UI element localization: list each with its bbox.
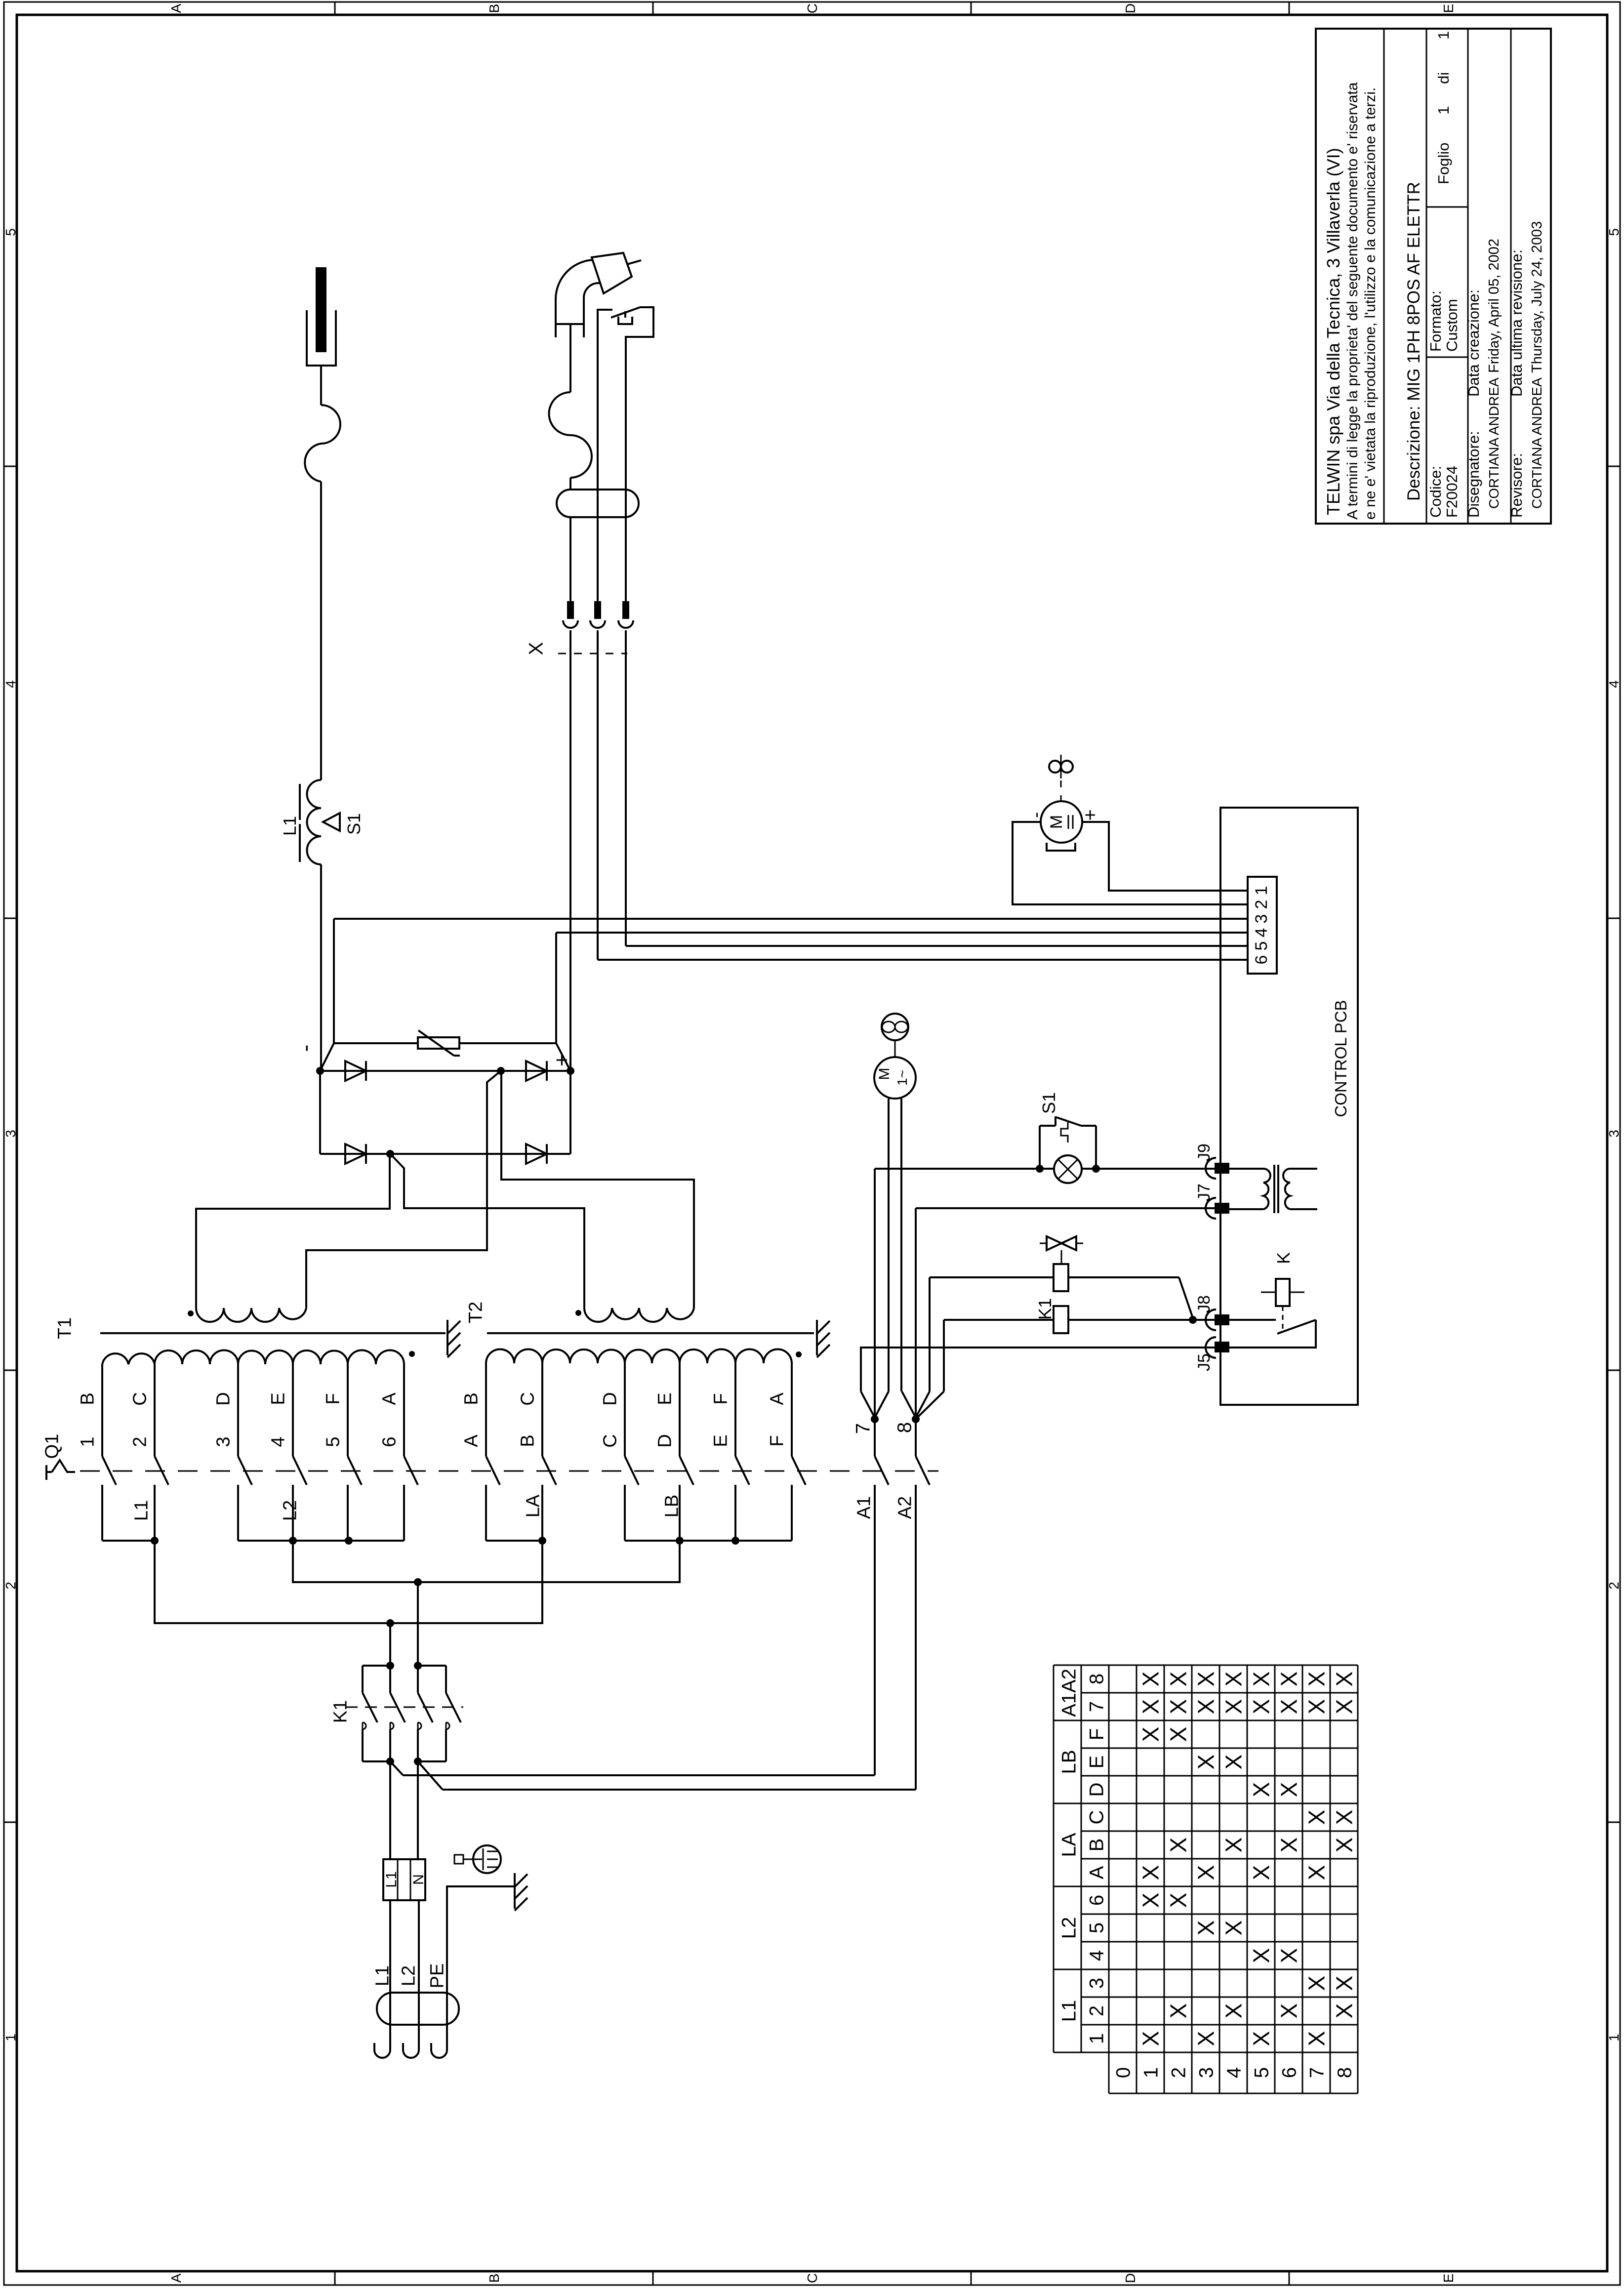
label plus output <box>550 1054 574 1066</box>
label J7 <box>1195 1184 1214 1201</box>
title text descrizione <box>1404 182 1423 501</box>
Q1 contact 7 upper <box>874 1419 876 1456</box>
svg-text:K: K <box>1273 1252 1294 1264</box>
border zone tick left <box>4 1822 17 1823</box>
wire torch lead 2 above pins <box>597 375 599 601</box>
svg-text:N: N <box>410 1874 427 1885</box>
wire bridge right side <box>569 1071 571 1154</box>
title text disegnatore label <box>1465 431 1482 518</box>
pcb transformer primary <box>1263 1169 1270 1209</box>
label tap B <box>78 1392 98 1405</box>
wire motor plus <box>1082 822 1248 891</box>
connector J8 <box>1206 1309 1229 1330</box>
Q1 contact 1 lower <box>101 1485 103 1541</box>
relay K coil lead left <box>1261 1292 1276 1293</box>
wire valve left <box>930 1276 1054 1278</box>
svg-text:X: X <box>1276 2003 1302 2019</box>
svg-text:A1A2: A1A2 <box>1058 1669 1080 1717</box>
contactor K1 bottom bar left <box>363 1760 390 1762</box>
node lamp left <box>1036 1165 1044 1173</box>
connector strip CN1 <box>1248 877 1277 974</box>
Q1 contact T2-C blade <box>625 1456 639 1485</box>
node K1 top right <box>414 1662 422 1670</box>
label contact 5 <box>323 1436 344 1447</box>
svg-text:2: 2 <box>1086 2005 1107 2016</box>
ferrite sleeve torch <box>557 490 639 517</box>
node T2 secondary polarity <box>575 1310 581 1316</box>
svg-text:C: C <box>130 1392 151 1405</box>
label plus motor <box>1079 809 1101 820</box>
title text foglio n2 <box>1435 31 1452 40</box>
border zone tick left <box>4 1370 17 1371</box>
svg-text:T2: T2 <box>466 1302 487 1323</box>
svg-text:3: 3 <box>213 1436 234 1447</box>
svg-text:X: X <box>1276 1699 1302 1715</box>
label CONTROL PCB <box>1332 1000 1350 1117</box>
node K1 bottom left <box>386 1757 394 1765</box>
label LB bus <box>662 1495 683 1517</box>
connector CN1 pin 5 label <box>1252 941 1271 951</box>
svg-text:4: 4 <box>268 1436 289 1447</box>
svg-text:X: X <box>1138 1727 1164 1742</box>
wire funnel8 a <box>902 1391 915 1416</box>
title block frame <box>1316 29 1551 524</box>
wire K1 to A1 <box>390 1761 875 1775</box>
node bus L1 <box>151 1537 159 1545</box>
zone label D top <box>1123 3 1138 13</box>
wire bridge bottom rail <box>320 1153 570 1155</box>
svg-text:X: X <box>1166 1727 1191 1742</box>
svg-text:8: 8 <box>893 1422 915 1433</box>
label contact 3 <box>213 1436 234 1447</box>
wire PE <box>447 1886 515 2050</box>
wire pcb secondary bottom <box>1290 1208 1317 1210</box>
wire L1 choke to minus node <box>320 864 322 1071</box>
label S1 thermostat <box>344 813 364 835</box>
wire torch lead 3 above pins <box>625 375 627 601</box>
svg-text:X: X <box>1332 1838 1357 1853</box>
svg-text:LB: LB <box>1058 1750 1080 1774</box>
node plus <box>567 1067 574 1075</box>
terminal block L1 N <box>383 1859 425 1900</box>
Q1 contact 1 upper <box>101 1364 103 1456</box>
torch trigger slant <box>611 307 640 318</box>
zone label 1 right <box>1606 2034 1622 2042</box>
zone label C top <box>805 3 820 13</box>
svg-text:X: X <box>1166 1893 1191 1908</box>
label tap T2 B <box>461 1392 482 1405</box>
contactor K1 bottom bar right <box>418 1760 446 1762</box>
wire electrode to flex <box>320 366 322 405</box>
contactor K1 contact blade <box>390 1693 405 1722</box>
wire pcb secondary top <box>1290 1168 1317 1170</box>
svg-text:Friday, April 05, 2002: Friday, April 05, 2002 <box>1486 239 1502 373</box>
wire torch pin5 horizontal <box>626 945 1248 947</box>
Q1 contact 4 blade <box>293 1456 307 1485</box>
wire K contact to J5 <box>1229 1320 1316 1348</box>
zone label 4 left <box>3 680 18 688</box>
svg-text:2: 2 <box>1606 1582 1622 1590</box>
svg-text:3: 3 <box>1606 1130 1622 1138</box>
svg-text:X: X <box>1138 1672 1164 1687</box>
zone label 1 left <box>3 2034 18 2042</box>
svg-text:D: D <box>1123 2273 1138 2283</box>
label Q1 <box>42 1434 63 1459</box>
wire L1 to LA tie <box>155 1541 542 1623</box>
Q1 contact 4 upper <box>292 1364 294 1456</box>
svg-text:8: 8 <box>1086 1674 1107 1684</box>
label L1 bus <box>131 1500 152 1521</box>
gas valve stem <box>1061 1250 1062 1264</box>
wire K1 out left <box>389 1761 391 1859</box>
wire X dashed line <box>558 653 627 654</box>
zone label E top <box>1441 4 1456 13</box>
svg-text:1: 1 <box>1435 106 1452 115</box>
wire bus L2 <box>238 1540 404 1542</box>
Q1 contact T2-C lower <box>624 1485 626 1541</box>
svg-text:X: X <box>525 642 547 655</box>
svg-text:X: X <box>1304 1976 1330 1991</box>
label J8 <box>1195 1295 1214 1313</box>
contactor K1 contact stub lower <box>389 1729 391 1761</box>
title text formato label <box>1427 290 1444 352</box>
wire K1 right drop <box>417 1582 419 1665</box>
svg-text:K1: K1 <box>1035 1298 1055 1320</box>
node K1 top left <box>386 1662 394 1670</box>
contactor K1 contact hook <box>418 1722 421 1729</box>
svg-text:F: F <box>1086 1728 1107 1740</box>
torch handle left <box>598 310 612 375</box>
node bus LB a <box>676 1537 684 1545</box>
Q1 contact 6 upper <box>403 1364 405 1456</box>
svg-text:B: B <box>461 1392 482 1405</box>
svg-text:F: F <box>711 1393 731 1404</box>
svg-text:-: - <box>1025 812 1046 818</box>
svg-text:X: X <box>1221 1920 1247 1936</box>
relay K contact blade <box>1277 1320 1316 1334</box>
fan link <box>894 1040 896 1057</box>
title text revisione value <box>1529 221 1545 373</box>
svg-text:D: D <box>655 1434 676 1447</box>
thermostat S1 triangle <box>323 813 340 831</box>
svg-text:di: di <box>1435 72 1452 84</box>
title text data creazione label <box>1465 289 1482 397</box>
wire bridge left side <box>319 1071 321 1154</box>
title text formato value <box>1443 299 1461 352</box>
svg-text:1: 1 <box>1435 31 1452 40</box>
contactor K1 contact hook <box>363 1722 366 1729</box>
wire K1 left drop <box>389 1623 391 1665</box>
border zone tick top <box>334 2 336 15</box>
motor M dc bars <box>1068 815 1073 829</box>
Q1 contact T2-A lower <box>485 1485 487 1541</box>
zone label 5 right <box>1606 228 1622 236</box>
label tap C <box>130 1392 151 1405</box>
torch neck dash <box>599 260 620 265</box>
svg-text:X: X <box>1276 1948 1302 1963</box>
svg-text:B: B <box>487 4 502 13</box>
title text codice label <box>1427 466 1444 518</box>
label tap E <box>268 1392 289 1405</box>
label contact 6 <box>379 1436 400 1447</box>
svg-text:Disegnatore:: Disegnatore: <box>1465 431 1482 518</box>
svg-text:E: E <box>268 1392 289 1405</box>
Q1 contact 3 lower <box>237 1485 239 1541</box>
svg-text:4: 4 <box>1252 928 1271 938</box>
svg-text:CORTIANA ANDREA: CORTIANA ANDREA <box>1486 377 1502 509</box>
label L1 choke <box>280 816 300 836</box>
inductor L1 choke <box>307 780 322 864</box>
Q1 contact 1 blade <box>102 1456 116 1485</box>
electrode bar <box>316 267 326 352</box>
svg-text:E: E <box>1086 1756 1107 1769</box>
svg-text:+: + <box>1079 809 1101 820</box>
svg-text:X: X <box>1193 1920 1219 1936</box>
svg-text:X: X <box>1332 1976 1357 1991</box>
connector J5 <box>1206 1337 1229 1358</box>
Q1 actuator zigzag <box>52 1460 75 1472</box>
wire J9 to pcb transformer <box>1229 1168 1263 1170</box>
connector CN1 pin 4 label <box>1252 928 1271 938</box>
svg-text:X: X <box>1166 1838 1191 1853</box>
zone label 2 right <box>1606 1582 1622 1590</box>
label contact T2 E <box>711 1434 731 1447</box>
contactor K1 contact stub upper <box>445 1666 447 1693</box>
border zone tick top <box>652 2 654 15</box>
label node 8 <box>893 1422 915 1433</box>
svg-text:X: X <box>1138 1699 1164 1715</box>
svg-text:S1: S1 <box>1039 1092 1059 1114</box>
Q1 contact 5 lower <box>347 1485 349 1541</box>
label A2 <box>895 1496 916 1519</box>
svg-text:LA: LA <box>1058 1833 1080 1857</box>
svg-text:X: X <box>1221 1755 1247 1770</box>
border zone tick bottom <box>334 2271 336 2285</box>
label M fan <box>876 1068 910 1086</box>
svg-text:J8: J8 <box>1195 1295 1214 1313</box>
torch connector pin 2 <box>590 601 605 628</box>
title block divider <box>1510 29 1512 524</box>
torch wire stub <box>627 260 641 264</box>
chassis ground PE <box>515 1873 528 1911</box>
title text revisore value <box>1529 377 1544 509</box>
wire plus sense to pin4 <box>556 932 1248 934</box>
node K1 bottom right <box>414 1757 422 1765</box>
Q1 contact 4 lower <box>292 1485 294 1541</box>
torch neck outer <box>556 260 595 337</box>
svg-text:X: X <box>1193 1699 1219 1715</box>
label tap F <box>323 1393 344 1404</box>
wire L2 to LB tie <box>293 1541 680 1582</box>
svg-text:X: X <box>1304 1672 1330 1687</box>
svg-text:X: X <box>1276 1838 1302 1853</box>
table row labels <box>1112 2067 1355 2078</box>
svg-text:C: C <box>1086 1810 1107 1825</box>
Q1 contact T2-F lower <box>791 1485 793 1541</box>
label J5 <box>1195 1353 1214 1371</box>
svg-text:B: B <box>1086 1839 1107 1852</box>
label LA bus <box>523 1494 544 1517</box>
contactor K1 contact blade <box>446 1693 461 1722</box>
node bridge bottom center <box>386 1150 394 1158</box>
wire torch lead 1 ferrite to flex <box>569 478 571 490</box>
label cable PE <box>427 1963 448 1989</box>
wire K1 out right <box>417 1761 419 1859</box>
svg-text:M: M <box>876 1068 893 1080</box>
electrode clamp <box>307 310 336 366</box>
node J8 junction <box>1189 1316 1197 1324</box>
wire bus LA <box>486 1540 542 1542</box>
svg-text:4: 4 <box>3 680 18 688</box>
title text disegnatore value <box>1486 377 1502 509</box>
wire valve drop <box>929 1277 931 1391</box>
Q1 contact T2-D blade <box>680 1456 693 1485</box>
svg-text:X: X <box>1249 1672 1274 1687</box>
svg-text:X: X <box>1221 2003 1247 2019</box>
label terminal L1 <box>383 1871 400 1887</box>
title block divider <box>1426 29 1427 524</box>
diode D2 <box>526 1061 547 1081</box>
title text codice value <box>1443 466 1461 518</box>
wire node8 vertical <box>915 1208 917 1419</box>
label K1 <box>330 1700 351 1723</box>
Q1 contact T2-B blade <box>542 1456 556 1485</box>
border zone tick right <box>1607 466 1620 467</box>
label tap T2 E <box>655 1392 676 1405</box>
svg-text:C: C <box>518 1392 538 1405</box>
svg-text:CORTIANA ANDREA: CORTIANA ANDREA <box>1529 377 1544 509</box>
svg-text:X: X <box>1249 1699 1274 1715</box>
node T2 primary polarity <box>796 1351 802 1357</box>
node T1 primary polarity <box>409 1351 415 1357</box>
connector CN1 pin 3 label <box>1252 914 1271 924</box>
svg-text:L1: L1 <box>372 1965 393 1986</box>
Q1 contact 5 blade <box>348 1456 362 1485</box>
torch handle right <box>626 307 653 375</box>
svg-text:0: 0 <box>1112 2067 1134 2078</box>
torch connector pin 1 <box>563 601 578 628</box>
svg-text:3: 3 <box>3 1130 18 1138</box>
svg-text:1: 1 <box>1606 2034 1622 2042</box>
Q1 contact 2 lower <box>154 1485 156 1541</box>
Q1 contact T2-E lower <box>734 1485 736 1541</box>
border zone tick bottom <box>1289 2271 1290 2285</box>
fan blades symbol <box>882 1014 908 1040</box>
svg-text:X: X <box>1138 2031 1164 2046</box>
pcb transformer core <box>1274 1165 1278 1213</box>
diode D4 <box>526 1144 547 1164</box>
svg-text:X: X <box>1332 1672 1357 1687</box>
zone label C bottom <box>805 2273 820 2283</box>
svg-text:E: E <box>1441 4 1456 13</box>
svg-text:X: X <box>1138 1893 1164 1908</box>
svg-text:5: 5 <box>1252 941 1271 951</box>
svg-text:M: M <box>1047 815 1066 829</box>
wire minus sense up <box>333 919 335 1043</box>
svg-text:2: 2 <box>3 1582 18 1590</box>
label terminal N <box>410 1874 427 1885</box>
svg-text:3: 3 <box>1195 2067 1217 2078</box>
svg-text:2: 2 <box>1252 900 1271 909</box>
connector CN1 pin 6 label <box>1252 955 1271 965</box>
transformer T1 primary <box>102 1350 404 1365</box>
label tap T2 C <box>518 1392 538 1405</box>
wire torch pin6 vertical <box>597 630 599 960</box>
title block cell divider <box>1426 357 1468 358</box>
svg-text:X: X <box>1166 1672 1191 1687</box>
svg-text:X: X <box>1221 1838 1247 1853</box>
title text legal line 1 <box>1344 82 1361 520</box>
svg-text:LA: LA <box>523 1494 544 1517</box>
svg-text:5: 5 <box>1251 2067 1272 2078</box>
svg-text:X: X <box>1166 1699 1191 1715</box>
node K1 right feed <box>414 1578 422 1586</box>
svg-text:B: B <box>518 1434 538 1447</box>
cable hook PE <box>431 2043 447 2058</box>
svg-text:1: 1 <box>1086 2033 1107 2044</box>
svg-text:D: D <box>600 1392 621 1405</box>
Q1 contact T2-A blade <box>486 1456 500 1485</box>
control PCB box <box>1220 808 1358 1405</box>
svg-text:4: 4 <box>1606 680 1622 688</box>
svg-text:A2: A2 <box>895 1496 916 1519</box>
chassis ground T1 <box>447 1320 460 1357</box>
Q1 contact T2-B upper <box>541 1363 543 1456</box>
svg-text:4: 4 <box>1086 1950 1107 1961</box>
svg-text:X: X <box>1249 1865 1274 1880</box>
label K1 coil <box>1035 1298 1055 1320</box>
svg-text:Foglio: Foglio <box>1435 143 1452 184</box>
wire minus sense to pin3 <box>334 918 1248 920</box>
wire torch lead 1 above pins <box>569 517 571 601</box>
label contact T2 F <box>767 1435 788 1446</box>
cable hook L2 <box>403 2043 419 2058</box>
contactor K1 contact stub lower <box>362 1729 364 1761</box>
zone label 3 left <box>3 1130 18 1138</box>
svg-text:L2: L2 <box>399 1965 419 1986</box>
Q1 contact 6 blade <box>404 1456 418 1485</box>
transformer T2 primary <box>486 1349 792 1363</box>
gas valve symbol <box>1040 1236 1083 1250</box>
contactor K1 coil <box>1054 1306 1068 1333</box>
node bus L2 a <box>289 1537 297 1545</box>
wire node7 to lamp <box>875 1168 1055 1170</box>
title block cell divider <box>1426 206 1468 208</box>
svg-text:X: X <box>1249 1782 1274 1798</box>
title text company <box>1323 148 1343 515</box>
wire T2 sec left <box>391 1154 584 1308</box>
svg-text:Custom: Custom <box>1443 299 1461 352</box>
Q1 contact T2-A upper <box>485 1363 487 1456</box>
svg-text:LB: LB <box>662 1495 683 1517</box>
border zone tick right <box>1607 1822 1620 1823</box>
svg-text:C: C <box>805 2273 820 2283</box>
node K1 left feed <box>386 1619 394 1627</box>
wire node7 vertical <box>874 1169 876 1419</box>
contactor K1 dashed <box>346 1707 463 1708</box>
wire reel link dashed <box>1060 780 1062 801</box>
svg-text:5: 5 <box>1086 1922 1107 1933</box>
node bus LA <box>538 1537 546 1545</box>
svg-text:L1: L1 <box>131 1500 152 1521</box>
title text revisore label <box>1508 453 1525 518</box>
svg-text:Descrizione: MIG 1PH 8POS AF: Descrizione: MIG 1PH 8POS AF ELETTR <box>1404 182 1423 501</box>
label contact T2 B <box>518 1434 538 1447</box>
node 8 <box>912 1415 920 1423</box>
svg-text:1: 1 <box>1140 2067 1162 2078</box>
svg-text:X: X <box>1221 1672 1247 1687</box>
label tap T2 D <box>600 1392 621 1405</box>
